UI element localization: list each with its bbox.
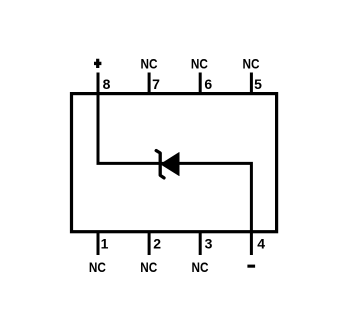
svg-text:NC: NC [140,259,157,275]
svg-text:6: 6 [204,76,212,92]
svg-text:NC: NC [192,259,209,275]
svg-text:7: 7 [152,76,160,92]
svg-text:NC: NC [89,259,106,275]
svg-text:2: 2 [153,235,161,251]
svg-text:3: 3 [205,235,213,251]
svg-text:NC: NC [243,55,260,71]
svg-text:1: 1 [101,235,109,251]
svg-text:8: 8 [103,76,111,92]
svg-text:5: 5 [254,76,262,92]
svg-text:4: 4 [257,235,265,251]
svg-text:NC: NC [141,55,158,71]
svg-text:NC: NC [191,55,208,71]
